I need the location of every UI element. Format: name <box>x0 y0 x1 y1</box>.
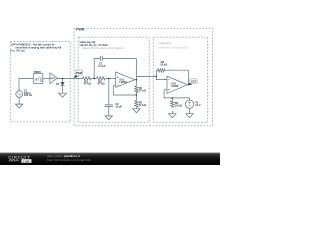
svg-text:47 kΩ: 47 kΩ <box>139 88 146 92</box>
svg-text:LM358: LM358 <box>119 82 127 84</box>
svg-text:0 to +5V out: 0 to +5V out <box>10 49 24 52</box>
svg-text:PWM1: PWM1 <box>34 71 42 74</box>
svg-text:ripple at 50 kHz approx 1mV: ripple at 50 kHz approx 1mV (goal) ok <box>82 47 125 50</box>
svg-text:PWR: PWR <box>76 27 85 31</box>
svg-text:47 kΩ: 47 kΩ <box>139 103 146 107</box>
svg-text:output amp: output amp <box>159 42 172 45</box>
svg-text:47 kΩ: 47 kΩ <box>98 82 105 86</box>
svg-text:LM358: LM358 <box>171 86 179 88</box>
svg-text:47 kΩ: 47 kΩ <box>84 82 91 86</box>
svg-text:10 µF: 10 µF <box>115 105 122 109</box>
svg-text:0.1 µF: 0.1 µF <box>98 64 106 68</box>
svg-text:10 kΩ: 10 kΩ <box>160 62 167 66</box>
svg-text:http://circuitlab.com/c/ajm2fu: http://circuitlab.com/c/ajm2fu <box>47 158 91 162</box>
svg-text:PWM: PWM <box>76 72 82 75</box>
svg-text:D1: D1 <box>56 82 60 86</box>
svg-text:BUF1: BUF1 <box>51 78 56 80</box>
svg-text:OUT: OUT <box>191 81 197 84</box>
svg-text:10 kΩ: 10 kΩ <box>175 103 182 107</box>
svg-text:10 V: 10 V <box>195 103 201 107</box>
svg-text:100 Hz: 100 Hz <box>24 93 33 97</box>
svg-text:LAB: LAB <box>23 159 31 163</box>
svg-text:OA1: OA1 <box>119 78 124 81</box>
svg-text:drives the 0.5 A load out ok: drives the 0.5 A load out ok <box>159 47 190 50</box>
svg-text:OA2: OA2 <box>171 83 176 86</box>
